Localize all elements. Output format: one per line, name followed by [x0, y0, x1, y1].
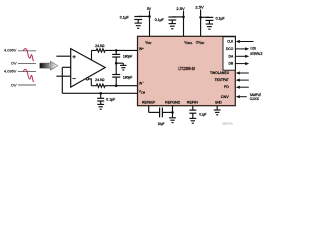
svg-text:TWOLANES: TWOLANES — [210, 71, 229, 75]
wire -IN input — [56, 75, 70, 77]
svg-text:24.9Ω: 24.9Ω — [95, 78, 105, 82]
ground below REFGND — [169, 118, 176, 123]
svg-text:4.096V: 4.096V — [4, 70, 17, 74]
svg-text:GND: GND — [215, 101, 222, 105]
wire junction to IN- pin — [116, 85, 137, 87]
wire 2.5V OVDD rail — [200, 9, 202, 36]
waveform VIN+ (red sine) — [23, 49, 33, 62]
svg-text:TESTPAT: TESTPAT — [215, 78, 229, 82]
ground below C8 — [189, 118, 196, 123]
wire TESTPAT input arrow — [239, 79, 249, 81]
svg-text:CNV: CNV — [221, 95, 230, 99]
svg-text:VDDL: VDDL — [184, 40, 193, 45]
svg-text:PD: PD — [224, 85, 229, 89]
wire REFBUF pin down — [148, 106, 150, 113]
ground (C1/C2 shared) — [120, 65, 126, 70]
op-amp U1 fully-differential amplifier — [71, 49, 106, 88]
svg-text:0.1µF: 0.1µF — [216, 17, 225, 21]
svg-text:LVDS: LVDS — [250, 46, 256, 50]
wire DCO output arrow — [235, 48, 246, 50]
node shared cap ground junction — [115, 62, 118, 65]
svg-text:DCO: DCO — [226, 47, 234, 51]
wire REFGND pin down — [172, 106, 174, 118]
svg-text:180pF: 180pF — [123, 55, 133, 59]
wire C7 to REFGND column — [162, 111, 172, 113]
node junction IN+ / C1 — [115, 49, 118, 52]
capacitor C7 10uF (REFBUF) — [160, 108, 163, 118]
svg-text:2.5V: 2.5V — [195, 6, 204, 10]
capacitor C3 0.1uF on VCM — [100, 93, 102, 98]
wire U1 bottom output from bubble — [88, 79, 91, 86]
svg-text:0V: 0V — [11, 62, 17, 66]
svg-text:5V: 5V — [147, 7, 152, 11]
wire TWOLANES input arrow — [239, 72, 249, 74]
ground below C5 — [169, 24, 176, 29]
svg-text:238618 TA01a: 238618 TA01a — [222, 122, 233, 125]
wire REFBUF to C7 — [149, 111, 160, 113]
IC U2 LTC2386-18 body — [138, 36, 236, 105]
wire 2.5V VDDL rail — [183, 11, 185, 37]
svg-text:180pF: 180pF — [123, 76, 133, 80]
svg-text:CLK: CLK — [227, 40, 234, 44]
svg-text:10µF: 10µF — [158, 122, 165, 126]
svg-text:LTC2386-18: LTC2386-18 — [178, 66, 195, 71]
node VDDL rail / C5 junction — [182, 16, 185, 19]
resistor R1 24.9 ohm — [92, 49, 117, 52]
wire VOCM pin to U1 — [62, 66, 70, 68]
wire +IN input — [56, 55, 70, 57]
svg-text:REFBUF: REFBUF — [142, 101, 155, 105]
node junction IN- / C2 — [115, 84, 118, 87]
node OVDD rail / C6 junction — [199, 16, 202, 19]
signal-flow block arrow — [40, 61, 58, 70]
wire REFIN pin down — [192, 106, 194, 110]
waveform VIN- (red sine) — [23, 69, 33, 82]
wire GND pin down — [216, 106, 218, 110]
capacitor C4 0.1uF (VDD bypass) — [134, 17, 142, 20]
wire to shared ground — [116, 62, 123, 64]
wire to C5 — [172, 16, 183, 18]
wire CLK input arrow — [239, 41, 254, 43]
wire 4.096V level line (ch1) — [18, 50, 36, 52]
svg-text:0.1µF: 0.1µF — [106, 98, 115, 102]
svg-text:REFIN: REFIN — [187, 101, 199, 105]
ground below C6 — [206, 24, 213, 29]
resistor R2 24.9 ohm — [91, 84, 116, 87]
node junction VCM / C3 — [99, 92, 102, 95]
wire DA output arrow — [235, 55, 246, 57]
wire 4.096V level line (ch2) — [18, 71, 36, 73]
svg-text:CLOCK: CLOCK — [250, 97, 260, 101]
op-amp output bubble (inverting output) — [86, 78, 88, 80]
wire to C4 — [138, 15, 149, 17]
wire CNV input arrow — [239, 96, 247, 98]
capacitor C5 0.1uF (VDDL bypass) — [168, 17, 176, 20]
svg-text:24.9Ω: 24.9Ω — [95, 44, 105, 48]
wire U1 top output tap — [91, 50, 93, 60]
wire PD input arrow — [239, 86, 249, 88]
wire VOCM vertical — [61, 67, 63, 93]
ground below C4 — [135, 23, 142, 28]
capacitor C6 0.1uF (OVDD bypass) — [206, 17, 214, 20]
wire 5V rail — [149, 11, 151, 37]
svg-text:0V: 0V — [11, 83, 17, 87]
svg-text:2.5V: 2.5V — [176, 7, 185, 11]
svg-text:DB: DB — [229, 62, 234, 66]
wire VCM from ADC to U1 VOCM — [62, 92, 137, 94]
wire DB output arrow — [235, 63, 246, 65]
svg-text:REFGND: REFGND — [165, 101, 181, 105]
svg-text:INTERFACE: INTERFACE — [250, 52, 262, 56]
wire junction to IN+ pin — [116, 49, 137, 51]
svg-text:4.096V: 4.096V — [4, 48, 17, 52]
svg-text:0.1µF: 0.1µF — [199, 112, 206, 116]
wire 0V level line (ch2) — [18, 84, 36, 86]
LVDS digital block (white box) — [223, 37, 235, 70]
capacitor C2 180pF — [115, 77, 117, 86]
svg-text:0.1µF: 0.1µF — [120, 16, 129, 20]
ground below GND pin — [214, 110, 221, 115]
ground below C3 — [97, 104, 104, 109]
node REFGND junction — [171, 111, 174, 114]
wire to C6 — [201, 16, 210, 18]
node 5V rail / C4 junction — [148, 15, 151, 18]
capacitor C8 0.1uF (REFIN) — [189, 110, 196, 113]
wire 0V level line (ch1) — [18, 62, 36, 64]
capacitor C1 180pF — [115, 50, 117, 54]
svg-text:0.1µF: 0.1µF — [155, 18, 164, 22]
